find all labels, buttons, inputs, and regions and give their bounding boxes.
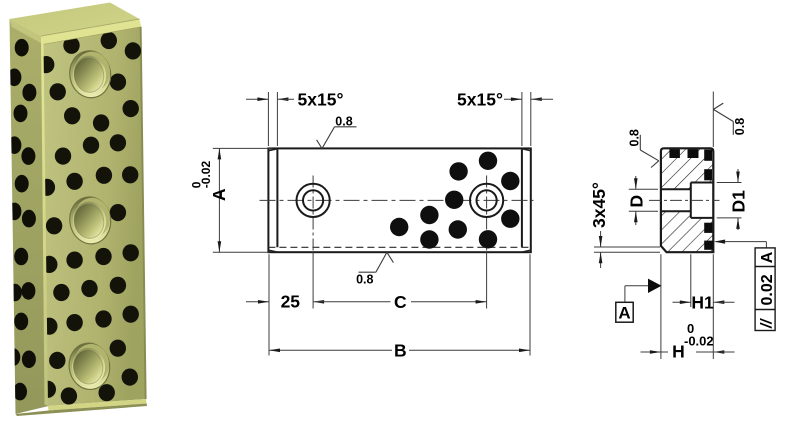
block side plugs bbox=[6, 39, 36, 401]
section centerline bbox=[649, 199, 720, 201]
dimension 5x15 right extension lines bbox=[521, 92, 523, 146]
svg-text:0.02: 0.02 bbox=[759, 274, 776, 305]
svg-text:0.8: 0.8 bbox=[356, 273, 373, 287]
svg-text:B: B bbox=[394, 340, 407, 360]
svg-text:D: D bbox=[627, 195, 647, 208]
dimension C bbox=[313, 300, 324, 304]
svg-text:0.8: 0.8 bbox=[733, 118, 747, 135]
svg-text:C: C bbox=[394, 292, 407, 312]
surface finish 0.8 right bbox=[713, 103, 723, 109]
datum A leader bbox=[625, 285, 648, 287]
block left face bbox=[10, 19, 49, 414]
front view hidden chamfer line bbox=[268, 246, 530, 248]
front view left chamfer line bbox=[276, 149, 278, 247]
svg-text:5x15°: 5x15° bbox=[457, 89, 503, 109]
3d block group bbox=[6, 3, 147, 417]
section hole D lines bbox=[661, 188, 691, 190]
surface finish 0.8 bottom bbox=[387, 252, 394, 262]
dimension 3x45 bbox=[600, 231, 602, 247]
svg-text:3x45°: 3x45° bbox=[589, 182, 609, 228]
front view hole2 centerline bbox=[486, 176, 488, 253]
front view hole1 centerline bbox=[312, 176, 314, 253]
dimension D extension lines bbox=[629, 188, 658, 190]
front view right chamfer line bbox=[521, 149, 523, 247]
dimension D1 extension lines bbox=[717, 182, 742, 184]
svg-text:H1: H1 bbox=[691, 292, 714, 312]
dimension H extension line bbox=[660, 254, 662, 359]
front view hole1 bbox=[297, 184, 330, 217]
svg-text://: // bbox=[758, 318, 775, 329]
front view outline bbox=[268, 148, 530, 252]
dimension 25 bbox=[246, 301, 269, 303]
b extension line right bbox=[529, 254, 531, 355]
parallelism frame leader bbox=[765, 242, 767, 248]
dimension H bbox=[641, 351, 661, 353]
front view corner chamfer slants bbox=[268, 149, 277, 151]
block hole 2 bbox=[66, 194, 114, 247]
svg-text:5x15°: 5x15° bbox=[298, 89, 344, 109]
surface finish 0.8 top bbox=[317, 140, 322, 149]
block top bevel edge lines bbox=[41, 19, 140, 36]
dimension H1 extension lines bbox=[690, 254, 692, 307]
b extension line left bbox=[268, 254, 270, 355]
front view graphite plugs bbox=[390, 152, 520, 249]
dimension H1 bbox=[673, 301, 691, 303]
section hatch lower bbox=[661, 211, 713, 252]
dimension 5x15 left bbox=[246, 98, 268, 100]
dimension A extension lines bbox=[213, 147, 273, 149]
svg-text:A: A bbox=[759, 251, 776, 263]
dimension 3x45 extension lines bbox=[594, 246, 660, 248]
svg-text:A: A bbox=[209, 188, 229, 201]
block front plugs bbox=[38, 32, 141, 405]
datum A box bbox=[616, 302, 633, 322]
block top face bbox=[10, 3, 140, 37]
dimension D1 bbox=[737, 169, 739, 183]
dimension A bbox=[218, 148, 220, 252]
dimension 5x15 left extension lines bbox=[267, 92, 269, 146]
section step line bbox=[690, 183, 692, 218]
datum A triangle bbox=[648, 279, 662, 293]
section graphite plugs bbox=[669, 149, 713, 250]
surface finish 0.8 left bbox=[639, 135, 641, 150]
parallelism frame bbox=[755, 248, 775, 331]
block left chamfer highlight bbox=[0, 0, 1, 1]
block hole 1 bbox=[66, 48, 114, 101]
dimension B bbox=[269, 349, 392, 351]
svg-text:25: 25 bbox=[281, 292, 301, 312]
section hatch upper bbox=[661, 148, 713, 189]
svg-text:-0.02: -0.02 bbox=[684, 333, 714, 348]
block right edge bbox=[140, 27, 147, 399]
svg-text:0.8: 0.8 bbox=[335, 114, 352, 128]
front view horizontal centerline bbox=[260, 199, 534, 201]
block top bevel bbox=[41, 19, 141, 45]
svg-text:0.8: 0.8 bbox=[628, 129, 642, 146]
svg-text:A: A bbox=[618, 304, 630, 323]
block bottom bevel bbox=[48, 399, 147, 411]
section hole D1 lines bbox=[691, 182, 714, 184]
block hole 3 bbox=[66, 340, 113, 392]
svg-text:-0.02: -0.02 bbox=[199, 161, 213, 189]
section top extension line bbox=[712, 92, 714, 148]
svg-text:D1: D1 bbox=[729, 190, 749, 213]
front view hole2 bbox=[470, 184, 503, 217]
svg-text:H: H bbox=[672, 342, 685, 362]
block front face bbox=[44, 27, 147, 406]
section outline bbox=[661, 148, 713, 252]
dimension D bbox=[635, 176, 637, 189]
